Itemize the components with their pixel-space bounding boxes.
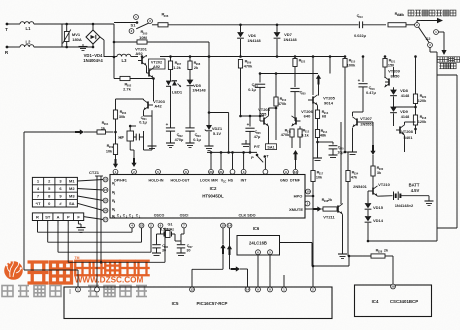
IC2 bottom pins — [130, 223, 135, 228]
wire VT211 emitter to ground — [342, 214, 344, 233]
wire — [143, 143, 145, 150]
keypad matrix — [32, 177, 77, 207]
capacitor C208 — [294, 55, 297, 58]
ground F col — [77, 221, 79, 225]
resistor R217 10k — [312, 56, 314, 58]
wire — [372, 122, 374, 145]
wire — [384, 57, 386, 59]
IC4 top pin — [391, 284, 396, 289]
resistor R230 3k — [372, 155, 374, 166]
wire to handset — [438, 31, 444, 33]
wire — [61, 24, 63, 47]
resistor R210 470k — [275, 72, 278, 75]
wire right loop — [429, 47, 431, 52]
wire — [241, 73, 261, 75]
IC2 left pins — [103, 177, 108, 182]
wire — [113, 24, 115, 79]
ground — [245, 140, 247, 144]
diode VD14 — [365, 216, 372, 221]
IC2 HT9045DL box — [110, 175, 305, 219]
transistor VT202 — [149, 59, 166, 69]
wire — [294, 92, 296, 121]
diode VD7 — [276, 24, 279, 27]
inductor L2 — [8, 46, 20, 48]
resistor R220 120k — [415, 57, 417, 93]
pin wires into IC2 top — [210, 152, 212, 169]
wire — [280, 242, 313, 244]
wire VT211 collector — [340, 122, 342, 204]
terminal T — [6, 23, 9, 26]
resistor R221 150 — [383, 59, 387, 68]
wire SDO — [229, 228, 231, 269]
diode VD9 — [390, 107, 397, 112]
wire — [241, 115, 265, 117]
resistor R209b 470k — [238, 60, 242, 69]
watermark text 电子市场网 — [75, 261, 90, 276]
IC5 PIC16C57-RCP box — [64, 287, 332, 319]
watermark text 维库 — [28, 262, 49, 283]
wire XMUTE — [305, 208, 314, 210]
24LC16B pins — [256, 250, 261, 255]
switch S1 — [134, 15, 139, 20]
capacitor C203 0.1u — [185, 127, 194, 129]
diode VD15 — [365, 203, 372, 208]
resistor R214 48k — [315, 130, 319, 138]
arrow into pin 2 — [133, 158, 135, 164]
resistor R203 30k — [115, 99, 117, 110]
ceramic resonator CTZ1 wires — [96, 176, 98, 287]
inductor L3 — [117, 54, 122, 56]
wire R col — [37, 221, 39, 233]
arrow into pin 1 — [115, 159, 117, 165]
resistor R218 120k — [413, 115, 417, 125]
diode VD8 — [390, 90, 397, 95]
terminal R — [6, 46, 9, 49]
wire — [283, 275, 285, 287]
resistor R212 9.1k — [298, 129, 302, 137]
wire — [368, 240, 437, 242]
IC4 CSC3401BCP box — [355, 285, 432, 317]
resistor R211 470k — [291, 126, 293, 129]
bridge rectifier VD1-VD4 — [86, 30, 100, 44]
bus wire — [207, 151, 257, 153]
resistor R202 2.7k — [114, 78, 120, 80]
zener VDZ1 5.1V — [208, 55, 211, 58]
resistor R215 100k — [344, 55, 347, 58]
resistor R234 47k — [346, 171, 350, 182]
LED D1 — [170, 70, 172, 82]
wire — [257, 255, 259, 287]
resistor R209 10k — [113, 144, 117, 155]
label 去手柄通话电路 — [437, 57, 442, 62]
wire rail — [160, 56, 345, 58]
resistor R207 1.2k — [169, 55, 172, 58]
wire ST col — [47, 221, 49, 243]
IC2 right pins — [306, 189, 311, 194]
wire — [208, 42, 210, 57]
watermark gray slogan 全球最大 采购网络 — [2, 286, 13, 297]
wire — [312, 57, 314, 96]
wire — [23, 132, 25, 270]
arrow up — [318, 78, 320, 85]
wire loop — [209, 112, 229, 114]
wire HPO — [310, 191, 313, 193]
keypad row RSTAPF — [32, 213, 83, 221]
diode VD5 — [189, 70, 191, 81]
keypad column wires to IC2 — [77, 180, 103, 182]
wire — [368, 190, 373, 192]
ground — [153, 110, 155, 140]
wire — [348, 255, 371, 257]
wire — [313, 265, 349, 267]
capacitor C216 0.47u — [362, 55, 365, 58]
watermark logo circle — [4, 261, 23, 280]
wire CLK — [222, 228, 224, 244]
wire — [392, 256, 394, 285]
wire — [116, 98, 144, 100]
diode VD6 — [239, 24, 242, 27]
resistor R205 10M — [114, 41, 137, 43]
wire A col — [57, 221, 59, 253]
IC2 top pins — [113, 169, 118, 174]
varistor MV1 — [64, 32, 69, 42]
wire — [264, 157, 266, 173]
resistor R206 — [152, 24, 158, 26]
capacitor C220 — [318, 141, 334, 143]
wire rail — [104, 56, 117, 58]
arrow down — [372, 145, 374, 152]
wire — [143, 110, 145, 116]
resistor R208 2k — [189, 55, 192, 58]
inductor L1 — [8, 23, 20, 25]
capacitor C206 30 — [160, 234, 162, 245]
switch S2 — [415, 23, 420, 28]
resistor R204 1k — [24, 131, 75, 133]
arrow — [421, 20, 438, 22]
resistor R213 68 — [317, 105, 319, 110]
arrow up mid — [295, 153, 297, 160]
wire — [100, 37, 104, 40]
ground — [82, 44, 84, 47]
wire — [329, 57, 331, 74]
capacitor C207 30 — [180, 234, 182, 244]
label 去免提通话电路 — [408, 10, 414, 16]
IC5 top pins — [76, 287, 81, 292]
wire P col — [67, 221, 69, 263]
